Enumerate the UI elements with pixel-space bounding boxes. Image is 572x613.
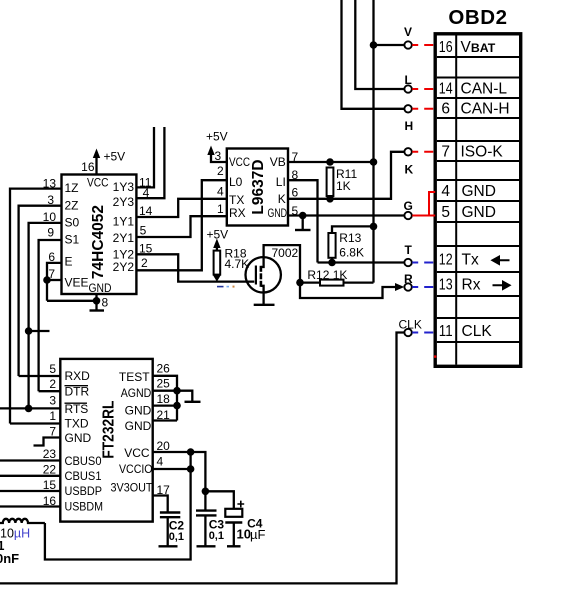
svg-text:6.8K: 6.8K xyxy=(339,246,364,260)
svg-text:RTS: RTS xyxy=(65,402,89,416)
svg-text:2Y2: 2Y2 xyxy=(113,260,135,274)
resistor R11 1K xyxy=(327,168,334,197)
junction VB-Vline xyxy=(370,158,378,166)
svg-text:25: 25 xyxy=(157,376,171,390)
ground bar C4 xyxy=(227,545,241,547)
svg-text:7: 7 xyxy=(292,150,299,164)
junction AGND xyxy=(173,387,181,395)
svg-text:5: 5 xyxy=(441,204,450,221)
terminal circle H xyxy=(404,105,411,112)
wire GND pin5 L9637D to G xyxy=(288,214,404,216)
blue dash T to pin12 xyxy=(412,262,435,264)
terminal circle G xyxy=(404,212,411,219)
wire GND pin7 FT jog xyxy=(34,438,61,446)
svg-text:10: 10 xyxy=(43,210,57,224)
wire 2Y1 pin5 to RX xyxy=(136,216,226,237)
svg-text:20: 20 xyxy=(157,439,171,453)
capacitor C2 0.1 plates xyxy=(160,511,180,513)
svg-text:13: 13 xyxy=(439,277,453,294)
svg-text:+5V: +5V xyxy=(206,130,228,144)
transistor Q1 7002 circle xyxy=(246,257,281,292)
svg-text:Rx: Rx xyxy=(462,277,481,294)
wire LI pin8 xyxy=(288,180,318,262)
capacitor C3 0.1 xyxy=(204,491,206,510)
svg-text:10: 10 xyxy=(237,527,251,542)
wire CBUS1 pin22 xyxy=(0,475,60,477)
channel segment bottom xyxy=(260,281,263,287)
svg-text:7: 7 xyxy=(49,425,56,439)
red dash V to pin16 xyxy=(412,44,435,46)
svg-text:23: 23 xyxy=(43,447,57,461)
svg-text:5: 5 xyxy=(292,204,299,218)
svg-text:GND: GND xyxy=(65,431,92,445)
svg-text:VB: VB xyxy=(270,155,286,169)
svg-text:CAN-L: CAN-L xyxy=(461,80,508,97)
svg-text:S0: S0 xyxy=(65,215,80,229)
svg-text:RXD: RXD xyxy=(65,369,91,383)
svg-text:5: 5 xyxy=(140,223,147,237)
junction GND8 xyxy=(93,297,101,305)
wire R13 bottom xyxy=(331,258,333,263)
svg-text:USBDP: USBDP xyxy=(65,484,103,498)
OBD2 texts xyxy=(439,6,510,340)
U3 overline DTR xyxy=(65,385,89,387)
svg-text:R: R xyxy=(404,272,413,286)
svg-text:GND: GND xyxy=(462,204,496,221)
svg-text:17: 17 xyxy=(157,483,171,497)
channel segment mid xyxy=(260,273,263,279)
svg-text:6: 6 xyxy=(48,250,55,264)
OBD2 connector grid xyxy=(435,34,521,367)
svg-text:6: 6 xyxy=(292,186,299,200)
blue dash R to pin13 xyxy=(412,286,435,288)
svg-text:16: 16 xyxy=(439,39,453,56)
blue artifact dashes xyxy=(217,286,224,288)
wire RTS pin3 FT xyxy=(0,407,60,409)
svg-text:G: G xyxy=(404,199,413,213)
blue dash CLK to pin11 xyxy=(412,332,435,334)
wire VEE pin7 xyxy=(47,279,62,281)
svg-text:1Y1: 1Y1 xyxy=(113,214,135,228)
wire stub on S0 xyxy=(29,330,50,332)
ground bar U1 xyxy=(295,229,311,231)
red link G to pins 4 and 5 xyxy=(412,215,435,217)
wire R18 top stem xyxy=(216,246,218,251)
connector divider xyxy=(455,36,457,365)
svg-text:2: 2 xyxy=(49,377,56,391)
ground bar U2 xyxy=(90,309,105,311)
wire R12 left xyxy=(300,281,320,283)
svg-text:1K: 1K xyxy=(336,179,351,193)
wire USBDP pin15 xyxy=(0,490,60,492)
resistor R13 6.8K xyxy=(328,233,335,258)
svg-text:1Y3: 1Y3 xyxy=(113,180,135,194)
resistor R12 1K xyxy=(320,280,344,286)
junction V terminal xyxy=(370,41,378,49)
svg-text:16: 16 xyxy=(43,494,57,508)
junction R12-drain xyxy=(296,279,304,287)
wire 1Y3 pin11 xyxy=(136,127,154,187)
svg-text:7: 7 xyxy=(48,267,55,281)
svg-text:LI: LI xyxy=(276,175,286,189)
svg-text:14: 14 xyxy=(439,80,453,97)
svg-text:OBD2: OBD2 xyxy=(448,6,507,29)
+5V arrow R18 xyxy=(213,239,220,249)
junction VCCIO xyxy=(187,465,195,473)
svg-text:4.7K: 4.7K xyxy=(225,257,250,271)
svg-text:1Z: 1Z xyxy=(65,181,79,195)
wire drain elbow xyxy=(264,245,300,283)
junction GND5 xyxy=(299,212,307,220)
ground stem U1 xyxy=(302,216,304,231)
svg-text:K: K xyxy=(405,162,414,176)
svg-text:S1: S1 xyxy=(65,233,80,247)
ground bar AGND xyxy=(185,401,201,403)
wire GND pin8 stem xyxy=(95,294,97,311)
wire 1Z pin13 xyxy=(10,189,62,424)
svg-text:L: L xyxy=(405,73,412,87)
junction R13-Vline xyxy=(370,223,378,231)
junction C3 top xyxy=(202,488,210,496)
svg-text:VCC: VCC xyxy=(124,446,150,460)
svg-text:GND: GND xyxy=(125,419,152,433)
wire 3V3OUT pin17 xyxy=(153,496,168,512)
+5V arrow U1 xyxy=(207,146,214,156)
svg-text:CAN-H: CAN-H xyxy=(461,101,510,118)
svg-text:GND: GND xyxy=(462,183,496,200)
svg-text:10µH: 10µH xyxy=(0,526,30,540)
svg-text:H: H xyxy=(405,119,414,133)
IC U1 L9637D body xyxy=(227,149,288,226)
svg-text:VCC: VCC xyxy=(87,176,109,190)
svg-text:14: 14 xyxy=(139,204,153,218)
terminal circle CLK xyxy=(404,329,411,336)
svg-text:18: 18 xyxy=(157,392,171,406)
wire to R terminal xyxy=(300,283,401,298)
svg-text:7: 7 xyxy=(441,144,450,161)
svg-text:TX: TX xyxy=(229,193,244,207)
svg-text:3: 3 xyxy=(49,393,56,407)
svg-text:GND: GND xyxy=(125,403,152,417)
wire E pin6 xyxy=(47,263,62,301)
IC U2 74HC4052 body xyxy=(62,175,137,295)
svg-text:L9637D: L9637D xyxy=(250,159,267,214)
svg-text:2Y3: 2Y3 xyxy=(113,195,135,209)
wire 2Y2 pin2 to L0 xyxy=(136,180,226,270)
svg-text:4: 4 xyxy=(143,186,150,200)
svg-text:K: K xyxy=(278,192,286,206)
svg-text:1: 1 xyxy=(49,409,56,423)
wire VCC pin20 xyxy=(153,452,206,491)
red dash K to pin7 xyxy=(412,151,435,153)
wire VCCIO pin4 xyxy=(153,468,191,470)
resistor R18 4.7K xyxy=(214,251,221,275)
svg-text:L0: L0 xyxy=(229,175,243,189)
wire GND pin18 xyxy=(153,404,177,406)
ground bar C2 xyxy=(159,545,178,547)
wire USBDM pin16 xyxy=(0,505,60,507)
IC U3 FT232RL body xyxy=(60,359,152,522)
svg-text:2Z: 2Z xyxy=(65,198,79,212)
svg-text:TEST: TEST xyxy=(119,370,150,384)
wire RXD pin5 xyxy=(19,375,61,377)
svg-text:12: 12 xyxy=(439,252,453,269)
svg-text:0,1: 0,1 xyxy=(169,531,184,543)
wire 2Y3 pin4 xyxy=(136,127,164,198)
red dash H to pin6 xyxy=(412,108,435,110)
svg-text:AGND: AGND xyxy=(121,386,152,400)
junction R13-T xyxy=(328,259,336,267)
svg-text:2: 2 xyxy=(141,256,148,270)
svg-text:VEE: VEE xyxy=(65,275,89,289)
svg-text:7002: 7002 xyxy=(272,246,299,260)
wire T line xyxy=(318,261,405,263)
svg-text:T: T xyxy=(405,243,413,257)
wire R13 top xyxy=(332,226,374,233)
svg-text:CLK: CLK xyxy=(462,323,493,340)
wire H line xyxy=(342,0,405,109)
svg-text:74HC4052: 74HC4052 xyxy=(90,205,107,279)
svg-text:6: 6 xyxy=(441,101,450,118)
terminal circle K xyxy=(404,148,411,155)
wire S1 pin9 xyxy=(39,240,62,391)
svg-text:µF: µF xyxy=(250,527,265,542)
svg-text:3: 3 xyxy=(47,193,54,207)
wire VCC rail down to bottom xyxy=(45,452,191,560)
gate bar Q1 xyxy=(255,266,257,285)
connector outer box xyxy=(435,34,521,367)
wire VCC pin16 stem xyxy=(95,156,97,175)
svg-text:+5V: +5V xyxy=(104,149,126,163)
junction GND18 xyxy=(173,402,181,410)
wire GND pin21 xyxy=(153,419,177,421)
arrow Tx xyxy=(493,257,510,264)
svg-text:5: 5 xyxy=(49,362,56,376)
wire K pin6 xyxy=(288,152,404,199)
capacitor C4 10uF xyxy=(205,491,233,509)
junction VB-R11 xyxy=(326,158,334,166)
junction VCC xyxy=(187,448,195,456)
svg-text:VBAT: VBAT xyxy=(461,39,496,56)
+5V arrow U2 xyxy=(93,149,100,159)
wire VB pin7 xyxy=(288,161,374,163)
svg-text:4: 4 xyxy=(441,183,450,200)
red artifact dot xyxy=(434,355,436,357)
svg-text:V: V xyxy=(404,25,412,39)
svg-text:4: 4 xyxy=(217,185,224,199)
wire VEE to GND8 xyxy=(47,300,97,302)
svg-text:15: 15 xyxy=(43,478,57,492)
svg-text:2: 2 xyxy=(217,164,224,178)
svg-text:CBUS0: CBUS0 xyxy=(65,454,102,468)
ground bar C3 xyxy=(197,545,216,547)
svg-text:3V3OUT: 3V3OUT xyxy=(111,480,154,494)
terminal circle T xyxy=(404,259,411,266)
junction stub xyxy=(25,327,33,335)
wire 2Z pin3 xyxy=(19,206,62,376)
svg-text:E: E xyxy=(65,255,73,269)
svg-text:8: 8 xyxy=(102,296,109,310)
svg-text:0nF: 0nF xyxy=(0,551,19,566)
wire CLK line xyxy=(0,333,404,584)
svg-text:VCC: VCC xyxy=(229,155,250,169)
svg-text:26: 26 xyxy=(157,361,171,375)
drain hook xyxy=(261,258,264,268)
plus sign C4 xyxy=(237,501,244,508)
U3 overline RTS xyxy=(65,402,88,404)
ground bar Q1 xyxy=(254,304,275,306)
wire R12 right xyxy=(344,281,374,283)
wire V battery vertical xyxy=(372,0,374,283)
svg-text:FT232RL: FT232RL xyxy=(101,401,118,459)
svg-text:8: 8 xyxy=(292,168,299,182)
svg-text:1: 1 xyxy=(217,202,224,216)
red links xyxy=(412,45,436,358)
svg-text:USBDM: USBDM xyxy=(65,500,104,514)
wire DTR pin2 FT xyxy=(39,390,61,392)
terminal circle R xyxy=(404,283,411,290)
svg-text:13: 13 xyxy=(43,176,57,190)
svg-text:15: 15 xyxy=(139,241,153,255)
svg-text:CLK: CLK xyxy=(399,317,422,331)
svg-text:CBUS1: CBUS1 xyxy=(65,469,102,483)
svg-text:GND: GND xyxy=(89,281,112,295)
junction K-R11 xyxy=(326,195,334,203)
red dash L to pin14 xyxy=(412,88,435,90)
wire AGND pin25 xyxy=(153,391,193,402)
svg-text:R13: R13 xyxy=(339,231,361,245)
row lines xyxy=(437,56,520,58)
svg-text:22: 22 xyxy=(43,463,57,477)
source hook xyxy=(261,286,264,305)
channel segment top xyxy=(260,266,263,272)
svg-text:4: 4 xyxy=(157,455,164,469)
wire V to terminal xyxy=(374,44,405,46)
terminal circle V xyxy=(404,41,411,48)
wire TEST pin26 tie xyxy=(153,376,177,421)
svg-text:TXD: TXD xyxy=(65,417,89,431)
arrowhead R18 bottom xyxy=(213,275,221,281)
svg-text:GND: GND xyxy=(268,206,288,220)
arrowhead R terminal xyxy=(395,283,404,291)
wire TXD pin1 xyxy=(10,422,60,424)
arrow Rx xyxy=(493,282,510,289)
wire 1Y1 pin14 to TX xyxy=(136,199,226,217)
junction S0-RTS xyxy=(25,405,33,413)
svg-text:R12 1K: R12 1K xyxy=(307,268,347,282)
svg-text:9: 9 xyxy=(47,226,54,240)
wire VCC pin3 L9637D xyxy=(211,153,227,162)
svg-text:RX: RX xyxy=(229,206,246,220)
svg-text:Tx: Tx xyxy=(462,252,479,269)
svg-text:ISO-K: ISO-K xyxy=(461,144,504,161)
blue links xyxy=(217,263,435,333)
svg-text:+5V: +5V xyxy=(207,228,229,242)
svg-text:DTR: DTR xyxy=(65,385,90,399)
svg-text:3: 3 xyxy=(215,149,222,163)
svg-text:11: 11 xyxy=(439,323,453,340)
wire C2 bottom xyxy=(167,517,169,546)
svg-text:0,1: 0,1 xyxy=(209,530,224,542)
wire S0 pin10 xyxy=(29,223,62,409)
svg-text:VCCIO: VCCIO xyxy=(119,462,153,476)
junction E-VEE xyxy=(43,276,51,284)
svg-text:2Y1: 2Y1 xyxy=(113,231,135,245)
wire 1Y2 pin15 to gate xyxy=(136,254,254,281)
inductor L1 10uH xyxy=(0,519,45,523)
terminal circle L xyxy=(404,85,411,92)
svg-text:16: 16 xyxy=(81,160,95,174)
wire L line xyxy=(355,0,404,89)
wire CBUS0 pin23 xyxy=(0,459,60,461)
svg-text:21: 21 xyxy=(157,408,171,422)
